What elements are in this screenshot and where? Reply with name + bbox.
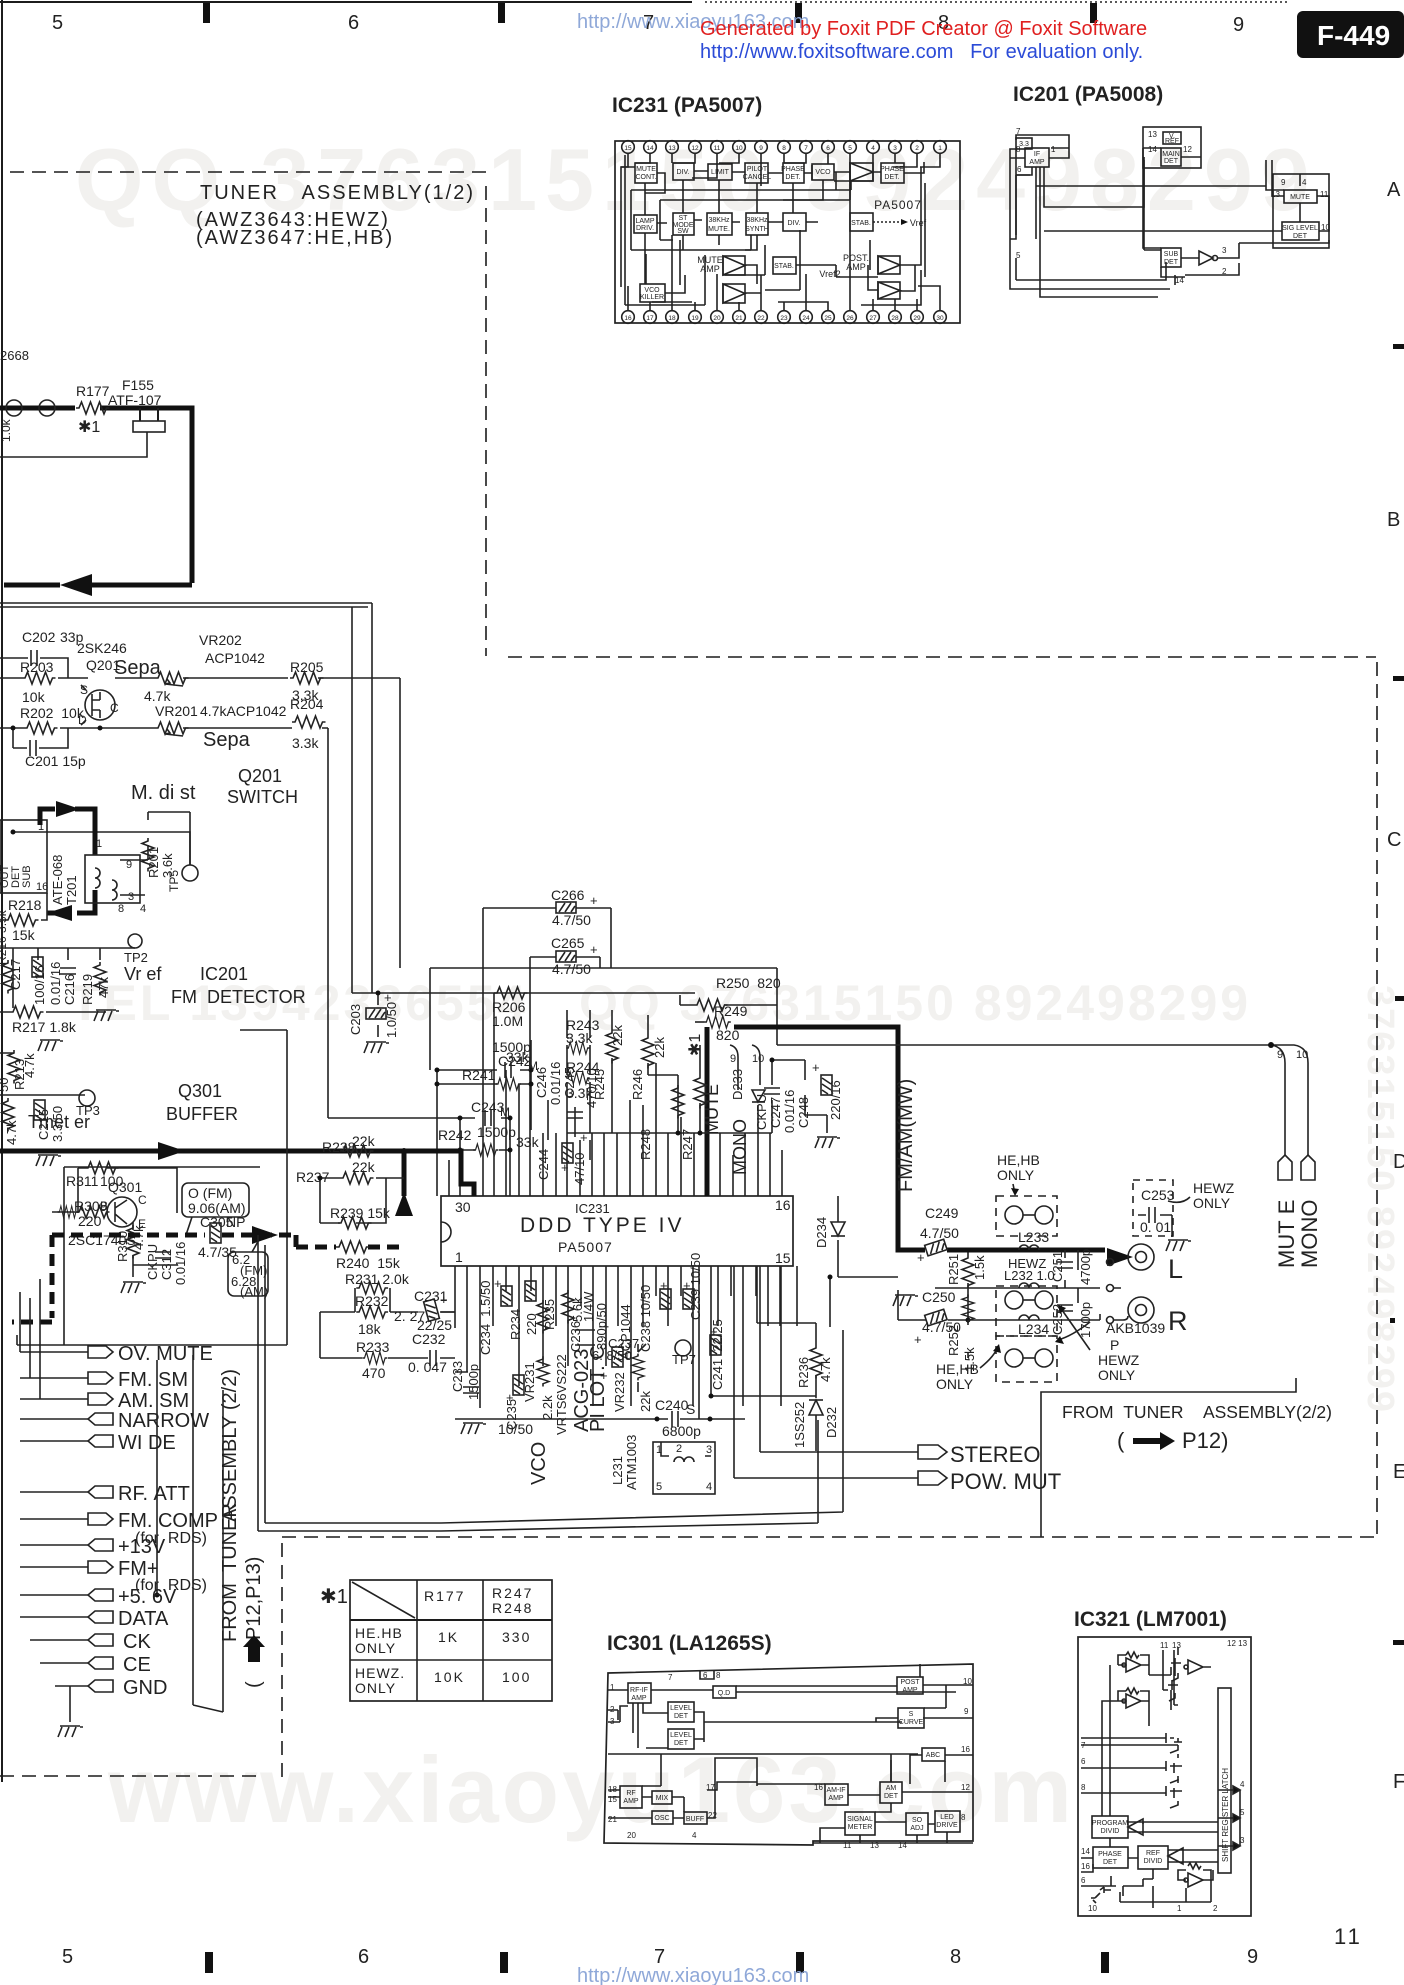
svg-text:STAB.: STAB. — [851, 220, 871, 227]
svg-text:VCO: VCO — [815, 169, 831, 176]
svg-text:8: 8 — [961, 1813, 966, 1822]
svg-text:S: S — [80, 683, 88, 697]
svg-text:10: 10 — [735, 145, 743, 152]
svg-text:D: D — [1393, 1151, 1404, 1173]
svg-text:VR232: VR232 — [612, 1372, 627, 1412]
svg-text:470/10: 470/10 — [584, 1068, 599, 1108]
svg-text:D232: D232 — [824, 1407, 839, 1438]
svg-text:DRIVE: DRIVE — [936, 1822, 958, 1829]
svg-text:17: 17 — [646, 315, 654, 322]
svg-text:PA5007: PA5007 — [558, 1239, 613, 1255]
svg-text:REF: REF — [1165, 138, 1179, 145]
svg-text:S: S — [909, 1711, 914, 1718]
svg-text:24: 24 — [802, 315, 810, 322]
svg-text:VCO: VCO — [644, 287, 660, 294]
svg-text:(: ( — [243, 1681, 265, 1688]
svg-text:4: 4 — [871, 145, 875, 152]
svg-text:R233: R233 — [356, 1339, 390, 1355]
svg-text:ABC: ABC — [926, 1752, 940, 1759]
svg-text:13: 13 — [1172, 1641, 1181, 1650]
svg-text:R214: R214 — [0, 1109, 3, 1140]
svg-text:L234: L234 — [1018, 1321, 1049, 1337]
svg-text:8: 8 — [950, 1946, 961, 1968]
svg-text:✱1: ✱1 — [320, 1586, 348, 1608]
svg-text:3: 3 — [1240, 1836, 1245, 1845]
svg-text:R232: R232 — [355, 1293, 389, 1309]
svg-text:CKPU: CKPU — [754, 1094, 769, 1130]
svg-text:(AWZ3647:HE,HB): (AWZ3647:HE,HB) — [196, 227, 394, 249]
svg-text:C253: C253 — [1141, 1187, 1175, 1203]
svg-text:ONLY: ONLY — [1193, 1195, 1231, 1211]
svg-text:Sepa: Sepa — [203, 729, 251, 751]
svg-text:SUB: SUB — [1164, 251, 1179, 258]
svg-text:L233: L233 — [1018, 1229, 1049, 1245]
svg-text:C203: C203 — [348, 1004, 363, 1035]
svg-text:✱1: ✱1 — [687, 1034, 704, 1056]
svg-text:1.0M: 1.0M — [492, 1013, 523, 1029]
svg-text:470: 470 — [362, 1365, 386, 1381]
svg-text:ONLY: ONLY — [355, 1680, 396, 1696]
svg-text:AMP: AMP — [902, 1687, 918, 1694]
svg-text:ACP1044: ACP1044 — [618, 1304, 633, 1360]
svg-text:2: 2 — [915, 145, 919, 152]
svg-text:C266: C266 — [551, 887, 585, 903]
svg-text:+: + — [812, 1060, 820, 1075]
svg-text:Vr ef: Vr ef — [124, 964, 162, 984]
svg-text:R246: R246 — [630, 1069, 645, 1100]
svg-text:0.01/16: 0.01/16 — [548, 1062, 563, 1105]
svg-text:8: 8 — [782, 145, 786, 152]
svg-text:POW. MUT: POW. MUT — [950, 1469, 1061, 1494]
svg-text:DET: DET — [674, 1740, 689, 1747]
svg-text:8: 8 — [716, 1671, 721, 1680]
svg-text:AM. SM: AM. SM — [118, 1390, 189, 1412]
svg-text:20: 20 — [627, 1831, 636, 1840]
svg-text:✱1: ✱1 — [78, 419, 100, 436]
svg-text:DET.: DET. — [884, 174, 899, 181]
svg-text:1SS252: 1SS252 — [792, 1402, 807, 1448]
svg-text:FROM TUNER ASSEMBLY(2/2): FROM TUNER ASSEMBLY(2/2) — [1062, 1402, 1332, 1422]
svg-text:+: + — [917, 1250, 925, 1265]
svg-text:STEREO: STEREO — [950, 1442, 1040, 1467]
svg-text:CANCEL: CANCEL — [743, 174, 772, 181]
svg-text:DET.: DET. — [785, 174, 800, 181]
svg-text:http://www.foxitsoftware.com: http://www.foxitsoftware.com For evaluat… — [700, 41, 1143, 63]
svg-text:IC301 (LA1265S): IC301 (LA1265S) — [607, 1632, 772, 1655]
svg-text:SIG LEVEL: SIG LEVEL — [1282, 225, 1318, 232]
svg-text:3: 3 — [706, 1444, 712, 1456]
svg-text:23: 23 — [780, 315, 788, 322]
svg-text:4.7/50: 4.7/50 — [920, 1225, 959, 1241]
svg-text:0. 047: 0. 047 — [408, 1359, 447, 1375]
svg-text:MONO: MONO — [1297, 1200, 1322, 1268]
svg-text:220: 220 — [0, 978, 3, 1000]
svg-text:B: B — [1387, 509, 1400, 531]
svg-text:TP7: TP7 — [672, 1352, 696, 1367]
svg-text:R202 10k: R202 10k — [20, 705, 85, 721]
svg-text:1.0k: 1.0k — [0, 418, 13, 442]
svg-text:DET: DET — [884, 1793, 899, 1800]
svg-text:VR201: VR201 — [155, 703, 198, 719]
svg-text:VR202: VR202 — [199, 632, 242, 648]
svg-text:C232: C232 — [412, 1331, 446, 1347]
svg-text:R204: R204 — [290, 696, 324, 712]
svg-text:12 13: 12 13 — [1227, 1639, 1248, 1648]
svg-text:+: + — [600, 1368, 608, 1383]
svg-text:10: 10 — [1296, 1049, 1308, 1061]
svg-text:STAB.: STAB. — [774, 263, 794, 270]
svg-text:16: 16 — [624, 315, 632, 322]
svg-text:R235: R235 — [542, 1299, 557, 1330]
svg-text:C201 15p: C201 15p — [25, 753, 86, 769]
svg-text:METER: METER — [848, 1824, 873, 1831]
svg-text:376315150 892498299: 376315150 892498299 — [1359, 985, 1401, 1414]
svg-text:1500p: 1500p — [466, 1364, 481, 1400]
svg-text:AMP: AMP — [846, 262, 866, 272]
svg-text:1500p: 1500p — [477, 1124, 516, 1140]
svg-text:1K: 1K — [438, 1629, 459, 1645]
svg-text:6: 6 — [826, 145, 830, 152]
svg-text:R248: R248 — [492, 1600, 533, 1616]
svg-text:CKPU: CKPU — [145, 1244, 160, 1280]
svg-text:4.7k: 4.7k — [144, 688, 171, 704]
svg-text:1: 1 — [1051, 145, 1056, 154]
svg-text:LEVEL: LEVEL — [670, 1705, 692, 1712]
svg-text:AMP: AMP — [631, 1695, 647, 1702]
svg-text:NP: NP — [226, 1214, 245, 1230]
svg-text:R247: R247 — [492, 1585, 533, 1601]
svg-text:50: 50 — [0, 1078, 11, 1092]
svg-text:1.5k: 1.5k — [972, 1255, 987, 1280]
svg-text:F155: F155 — [122, 377, 154, 393]
svg-text:7: 7 — [804, 145, 808, 152]
svg-text:9: 9 — [1233, 14, 1244, 36]
svg-text:LED: LED — [940, 1814, 954, 1821]
svg-text:21: 21 — [735, 315, 743, 322]
svg-text:DET: DET — [1293, 233, 1308, 240]
svg-text:10k: 10k — [22, 689, 46, 705]
svg-text:CURVE: CURVE — [899, 1719, 924, 1726]
svg-text:L: L — [1168, 1254, 1183, 1284]
svg-text:AMP: AMP — [828, 1795, 844, 1802]
svg-text:1.0/50: 1.0/50 — [384, 1002, 399, 1038]
svg-text:DET: DET — [1103, 1859, 1118, 1866]
svg-text:DIV.: DIV. — [788, 220, 801, 227]
svg-text:REF: REF — [1146, 1850, 1160, 1857]
svg-text:14: 14 — [646, 145, 654, 152]
svg-text:30: 30 — [455, 1199, 471, 1215]
svg-text:LAMP: LAMP — [635, 218, 654, 225]
svg-text:L232 1.0: L232 1.0 — [1004, 1268, 1055, 1283]
svg-text:LIMIT: LIMIT — [711, 169, 730, 176]
svg-text:4.7/50: 4.7/50 — [552, 912, 591, 928]
svg-text:C233: C233 — [450, 1361, 465, 1392]
svg-text:390p/50: 390p/50 — [594, 1303, 609, 1350]
svg-text:38KHz: 38KHz — [708, 217, 730, 224]
svg-text:IF: IF — [1034, 151, 1040, 158]
svg-text:1: 1 — [938, 145, 942, 152]
svg-text:22k: 22k — [638, 1391, 653, 1412]
svg-text:HEWZ: HEWZ — [1098, 1352, 1140, 1368]
svg-text:GND: GND — [123, 1677, 167, 1699]
svg-text:MUTE.: MUTE. — [708, 226, 730, 233]
svg-text:T201: T201 — [64, 875, 79, 905]
svg-text:DRIV.: DRIV. — [636, 225, 654, 232]
svg-text:R216 3.5k: R216 3.5k — [0, 909, 9, 965]
svg-text:ONLY: ONLY — [355, 1640, 396, 1656]
svg-text:9: 9 — [126, 859, 132, 871]
svg-text:SHIFT REGISTER LATCH: SHIFT REGISTER LATCH — [1221, 1768, 1230, 1862]
svg-text:Vref: Vref — [910, 218, 927, 228]
svg-text:C202: C202 — [22, 629, 56, 645]
svg-text:16: 16 — [36, 881, 48, 893]
svg-text:BUFF: BUFF — [686, 1816, 704, 1823]
svg-text:R251: R251 — [946, 1254, 961, 1285]
svg-text:LEVEL: LEVEL — [670, 1732, 692, 1739]
svg-text:22k: 22k — [610, 1025, 625, 1046]
svg-text:MIX: MIX — [656, 1795, 669, 1802]
svg-text:6: 6 — [348, 12, 359, 34]
svg-text:C236: C236 — [568, 1321, 583, 1352]
svg-text:+13V: +13V — [118, 1536, 166, 1558]
svg-text:C248: C248 — [796, 1097, 811, 1128]
svg-text:3: 3 — [893, 145, 897, 152]
svg-text:11: 11 — [1320, 190, 1329, 199]
svg-text:9: 9 — [1247, 1946, 1258, 1968]
svg-text:RF-IF: RF-IF — [630, 1687, 648, 1694]
svg-text:4: 4 — [692, 1831, 697, 1840]
svg-text:ADJ: ADJ — [910, 1825, 923, 1832]
svg-text:S: S — [686, 1401, 695, 1417]
svg-text:8: 8 — [118, 903, 124, 915]
svg-text:PA5007: PA5007 — [874, 198, 922, 212]
svg-text:4.7k: 4.7k — [818, 1357, 833, 1382]
svg-text:0. 01: 0. 01 — [1140, 1219, 1171, 1235]
svg-text:0.01/16: 0.01/16 — [48, 962, 63, 1005]
svg-text:25: 25 — [824, 315, 832, 322]
svg-text:10: 10 — [1088, 1904, 1097, 1913]
svg-text:R217 1.8k: R217 1.8k — [12, 1019, 77, 1035]
svg-text:9: 9 — [1281, 178, 1286, 187]
svg-text:PROGRAM: PROGRAM — [1092, 1820, 1128, 1827]
svg-text:HE,HB: HE,HB — [997, 1152, 1040, 1168]
svg-text:C: C — [1387, 829, 1401, 851]
svg-text:38KHz: 38KHz — [746, 217, 768, 224]
svg-text:MAIN: MAIN — [1162, 151, 1180, 158]
svg-text:15: 15 — [624, 145, 632, 152]
svg-text:SW: SW — [677, 228, 689, 235]
svg-text:DET: DET — [1164, 158, 1179, 165]
svg-text:VCO: VCO — [528, 1442, 550, 1485]
svg-text:330: 330 — [502, 1629, 531, 1645]
svg-text:DET: DET — [674, 1713, 689, 1720]
svg-text:C: C — [138, 1193, 147, 1207]
svg-text:SUB: SUB — [21, 865, 33, 888]
svg-text:1: 1 — [1177, 1904, 1182, 1913]
svg-text:C235: C235 — [504, 1399, 519, 1430]
svg-text:10: 10 — [752, 1053, 764, 1065]
svg-text:PILOT: PILOT — [747, 166, 768, 173]
svg-text:+: + — [914, 1332, 922, 1347]
svg-text:Generated by Foxit PDF Creator: Generated by Foxit PDF Creator @ Foxit S… — [700, 18, 1147, 40]
svg-text:O (FM): O (FM) — [188, 1185, 232, 1201]
svg-text:2: 2 — [676, 1443, 682, 1455]
svg-text:1700p: 1700p — [1078, 1302, 1093, 1338]
svg-text:F-449: F-449 — [1317, 20, 1390, 51]
svg-text:M. di st: M. di st — [131, 782, 196, 804]
svg-text:CONT.: CONT. — [636, 174, 657, 181]
svg-text:ACP1042: ACP1042 — [205, 650, 265, 666]
svg-text:NARROW: NARROW — [118, 1410, 209, 1432]
svg-text:DATA: DATA — [118, 1608, 169, 1630]
svg-text:DIVID: DIVID — [1101, 1828, 1120, 1835]
svg-text:RF: RF — [626, 1790, 635, 1797]
svg-text:13: 13 — [1148, 130, 1157, 139]
svg-text:R234: R234 — [508, 1309, 523, 1340]
svg-text:1: 1 — [455, 1249, 463, 1265]
svg-text:IC201 (PA5008): IC201 (PA5008) — [1013, 83, 1163, 106]
svg-text:AMP: AMP — [700, 264, 720, 274]
svg-text:SYNTH: SYNTH — [745, 226, 769, 233]
svg-text:MUT E: MUT E — [1274, 1200, 1299, 1268]
svg-text:CK: CK — [123, 1631, 151, 1653]
svg-text:2: 2 — [1213, 1904, 1218, 1913]
svg-text:20: 20 — [713, 315, 721, 322]
svg-text:100/16: 100/16 — [32, 965, 47, 1005]
svg-text:4.7/35: 4.7/35 — [198, 1244, 237, 1260]
svg-text:Tmet er: Tmet er — [28, 1112, 90, 1132]
svg-text:R240 15k: R240 15k — [336, 1255, 401, 1271]
svg-text:OSC: OSC — [654, 1815, 669, 1822]
svg-text:FM/AM(MW): FM/AM(MW) — [895, 1079, 917, 1192]
svg-text:R250 820: R250 820 — [716, 975, 781, 991]
svg-text:220/16: 220/16 — [828, 1080, 843, 1120]
svg-text:ONLY: ONLY — [997, 1167, 1035, 1183]
svg-text:220: 220 — [524, 1313, 539, 1335]
svg-text:C265: C265 — [551, 935, 585, 951]
svg-text:R249: R249 — [714, 1003, 748, 1019]
svg-text:11: 11 — [714, 145, 721, 152]
svg-text:27: 27 — [869, 315, 877, 322]
svg-text:14: 14 — [1081, 1847, 1090, 1856]
svg-text:Q.D: Q.D — [718, 1690, 730, 1697]
svg-text:C241 22/25: C241 22/25 — [710, 1319, 725, 1390]
svg-text:+: + — [580, 1130, 588, 1145]
svg-text:R231 2.0k: R231 2.0k — [345, 1271, 410, 1287]
svg-text:3: 3 — [128, 891, 134, 903]
svg-text:9: 9 — [964, 1707, 969, 1716]
svg-text:http://www.xiaoyu163.com: http://www.xiaoyu163.com — [577, 1965, 809, 1985]
svg-text:M: M — [528, 1059, 538, 1073]
svg-text:28: 28 — [891, 315, 899, 322]
svg-text:C249: C249 — [925, 1205, 959, 1221]
svg-text:6: 6 — [1081, 1876, 1086, 1885]
svg-text:+: + — [440, 1292, 448, 1307]
svg-text:M: M — [500, 1105, 510, 1119]
svg-text:FM. COMP: FM. COMP — [118, 1510, 218, 1532]
svg-text:C240: C240 — [655, 1397, 689, 1413]
svg-text:SO: SO — [912, 1817, 923, 1824]
svg-text:C238 10/50: C238 10/50 — [638, 1285, 653, 1352]
svg-text:DIVID: DIVID — [1144, 1858, 1163, 1865]
svg-text:26: 26 — [846, 315, 854, 322]
svg-text:47k: 47k — [96, 977, 111, 998]
svg-text:BUFFER: BUFFER — [166, 1104, 238, 1124]
svg-text:HEWZ: HEWZ — [1193, 1180, 1235, 1196]
svg-text:R201: R201 — [146, 847, 161, 878]
svg-text:16: 16 — [1081, 1862, 1090, 1871]
svg-text:C239 10/50: C239 10/50 — [688, 1253, 703, 1320]
svg-text:MUTE: MUTE — [1290, 194, 1310, 201]
svg-text:VRTS6VS222: VRTS6VS222 — [554, 1354, 569, 1435]
svg-text:R: R — [1168, 1306, 1188, 1336]
svg-text:21: 21 — [608, 1815, 617, 1824]
svg-text:FM. SM: FM. SM — [118, 1369, 188, 1391]
svg-text:+: + — [494, 1276, 502, 1291]
svg-text:0.01/16: 0.01/16 — [173, 1242, 188, 1285]
svg-text:R237: R237 — [296, 1169, 330, 1185]
svg-text:C245: C245 — [562, 1067, 577, 1098]
svg-text:5: 5 — [62, 1946, 73, 1968]
svg-text:6: 6 — [358, 1946, 369, 1968]
svg-text:1: 1 — [96, 838, 102, 850]
svg-text:3.3k: 3.3k — [292, 735, 319, 751]
svg-text:3: 3 — [1222, 246, 1227, 255]
svg-text:Q301: Q301 — [178, 1081, 222, 1101]
svg-text:4.7kACP1042: 4.7kACP1042 — [200, 703, 287, 719]
svg-text:4: 4 — [1240, 1780, 1245, 1789]
svg-text:HE.HB: HE.HB — [355, 1625, 403, 1641]
svg-text:9: 9 — [1277, 1049, 1283, 1061]
svg-text:C247: C247 — [768, 1097, 783, 1128]
svg-text:IC321 (LM7001): IC321 (LM7001) — [1074, 1608, 1227, 1631]
svg-text:4: 4 — [1302, 178, 1307, 187]
svg-text:DIV.: DIV. — [677, 169, 690, 176]
svg-text:C234 1.5/50: C234 1.5/50 — [478, 1281, 493, 1355]
svg-text:TUNER ASSEMBLY(1/2): TUNER ASSEMBLY(1/2) — [200, 182, 475, 204]
svg-text:MUTE: MUTE — [636, 166, 656, 173]
svg-text:12: 12 — [1183, 145, 1192, 154]
svg-text:2SK246: 2SK246 — [77, 640, 127, 656]
svg-text:FM DETECTOR: FM DETECTOR — [171, 987, 306, 1007]
svg-text:3.3: 3.3 — [1019, 141, 1029, 148]
svg-text:+: + — [384, 990, 392, 1005]
svg-text:C251: C251 — [1050, 1251, 1065, 1282]
svg-text:4: 4 — [140, 903, 146, 915]
svg-text:30: 30 — [936, 315, 944, 322]
svg-text:C: C — [110, 701, 119, 715]
svg-text:10K: 10K — [434, 1669, 465, 1685]
svg-text:C216: C216 — [62, 974, 77, 1005]
svg-text:L231: L231 — [610, 1456, 625, 1485]
svg-text:4700p: 4700p — [1078, 1249, 1093, 1285]
svg-text:D233: D233 — [730, 1069, 745, 1100]
svg-text:R218: R218 — [8, 897, 42, 913]
svg-text:22: 22 — [757, 315, 765, 322]
svg-text:ATF-107: ATF-107 — [108, 392, 162, 408]
svg-text:PHASE: PHASE — [1098, 1851, 1122, 1858]
svg-text:13: 13 — [668, 145, 676, 152]
svg-text:33k: 33k — [506, 1049, 530, 1065]
svg-text:22k: 22k — [652, 1037, 667, 1058]
svg-text:5: 5 — [1240, 1808, 1245, 1817]
svg-text:6: 6 — [703, 1671, 708, 1680]
svg-text:9: 9 — [759, 145, 763, 152]
svg-text:4.7k: 4.7k — [4, 1120, 19, 1145]
svg-text:SIGNAL: SIGNAL — [847, 1816, 873, 1823]
svg-text:MUTE: MUTE — [702, 1084, 722, 1135]
svg-text:6: 6 — [1081, 1757, 1086, 1766]
